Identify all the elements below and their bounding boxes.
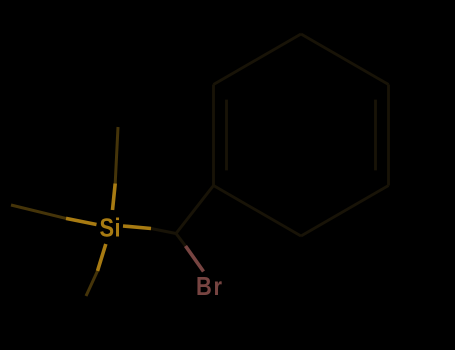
bond Si-CH3 left: bright half (Si side) [66,218,97,224]
bond Si-CH3 down-left: bright half (Si side) [98,244,106,271]
bond Si-C1 dark half (carbon side) [151,229,176,234]
wire aromatic inner line right [374,100,377,171]
wire ring edge top-TR [301,34,389,85]
bond Si-C1 bright half (Si side) [123,226,151,229]
wire ring edge BR-bottom [301,186,389,237]
wire ring edge bottom-BL [214,186,302,237]
svg-text:Br: Br [196,272,222,301]
svg-text:Si: Si [100,214,121,243]
wire aromatic inner line left [225,100,228,171]
bond Si-CH3 up: bright half (Si side) [113,184,116,211]
bond C1-Br dark half (carbon side) [176,234,186,247]
bond Si-CH3 down-left: dark half (carbon side) [86,271,98,296]
bond Si-CH3 left: dark half (carbon side) [11,205,66,218]
wire ring edge TR-BR (right) [387,85,390,186]
bond C1-ipso (CHBr to phenyl), carbon colored [176,186,214,234]
wire ring edge BL-TL (left) [212,85,215,186]
benzene ring C6H5 (phenyl), dark carbon-colored hexagon [214,34,389,236]
bond C1-Br red half (bromine side) [186,246,204,272]
bond Si-CH3 up: dark half (carbon side) [115,127,118,184]
wire ring edge TL-top [214,34,302,85]
